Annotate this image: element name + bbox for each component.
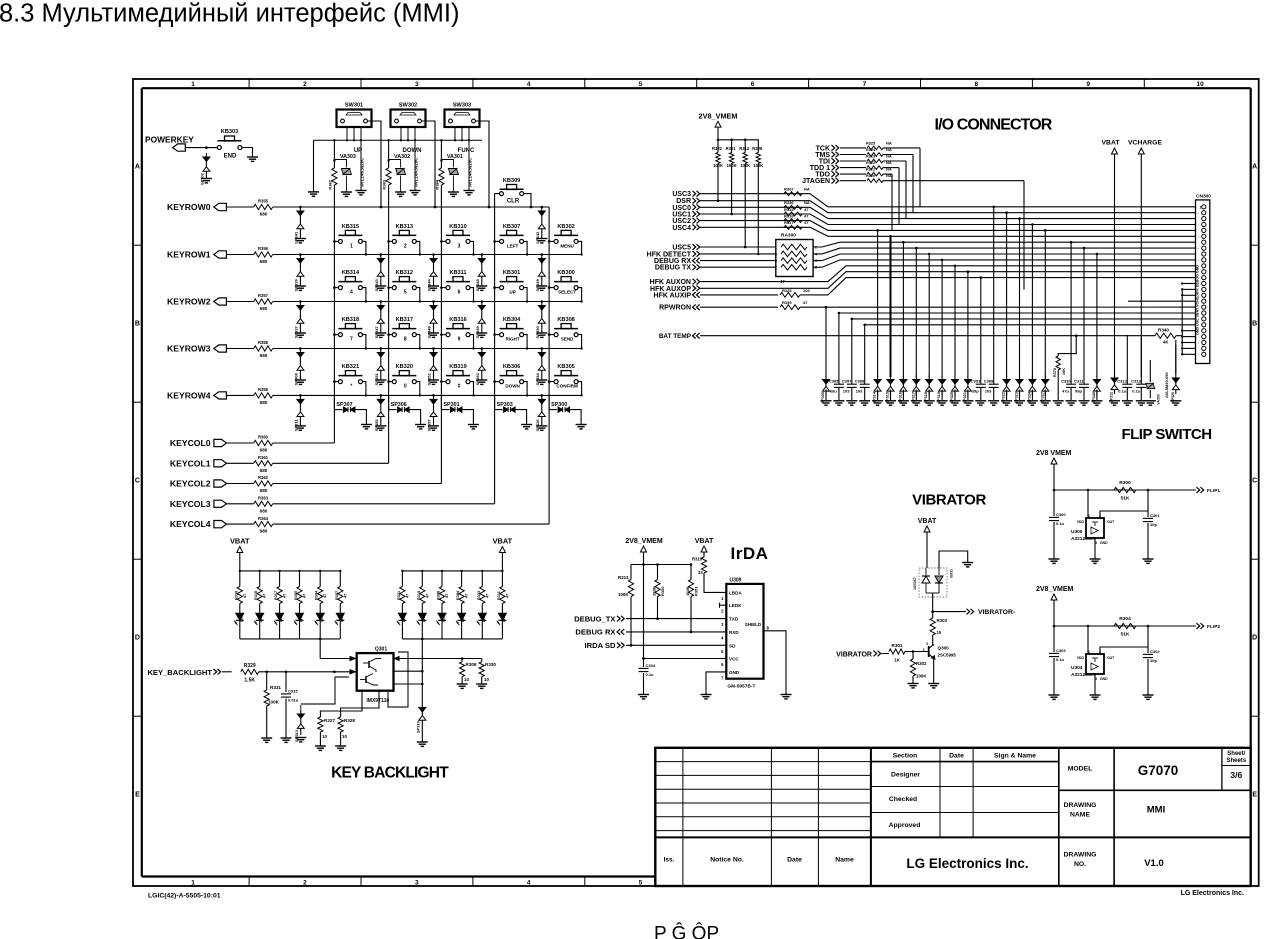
svg-text:NA: NA bbox=[886, 147, 892, 152]
svg-text:C303: C303 bbox=[1056, 648, 1066, 653]
svg-text:680: 680 bbox=[260, 488, 268, 493]
svg-text:SP353: SP353 bbox=[475, 373, 480, 386]
svg-text:SP339: SP339 bbox=[294, 279, 299, 292]
svg-text:SP350: SP350 bbox=[535, 326, 540, 339]
svg-text:R309: R309 bbox=[466, 662, 477, 667]
svg-text:SP347: SP347 bbox=[374, 326, 379, 339]
svg-text:Approved: Approved bbox=[889, 822, 921, 829]
svg-text:R301: R301 bbox=[892, 643, 903, 648]
svg-text:KB321: KB321 bbox=[342, 364, 359, 370]
svg-text:END: END bbox=[224, 154, 237, 160]
svg-text:R331: R331 bbox=[270, 685, 281, 690]
svg-text:3: 3 bbox=[415, 81, 419, 88]
svg-text:SHIELD: SHIELD bbox=[745, 622, 761, 627]
svg-text:DRAWING: DRAWING bbox=[1064, 802, 1097, 809]
svg-text:DOWN: DOWN bbox=[505, 384, 520, 389]
svg-text:GND USC VBAT VCHG HFK DEBUG GN: GND USC VBAT VCHG HFK DEBUG GND bbox=[1196, 265, 1200, 335]
svg-text:51K: 51K bbox=[1121, 496, 1130, 502]
svg-text:R362: R362 bbox=[258, 475, 269, 480]
svg-text:E: E bbox=[1252, 792, 1257, 799]
svg-text:99p: 99p bbox=[1075, 389, 1082, 394]
svg-text:NA: NA bbox=[886, 154, 892, 159]
svg-text:KB317: KB317 bbox=[396, 317, 413, 323]
svg-text:103K: 103K bbox=[652, 586, 657, 596]
svg-text:OUT: OUT bbox=[1107, 520, 1115, 524]
svg-text:RA300: RA300 bbox=[781, 233, 796, 239]
svg-text:10: 10 bbox=[464, 677, 469, 682]
svg-text:RPWRON: RPWRON bbox=[659, 305, 691, 312]
svg-text:47: 47 bbox=[263, 594, 267, 598]
svg-text:CN300: CN300 bbox=[1196, 194, 1211, 200]
svg-text:KEYROW4: KEYROW4 bbox=[167, 390, 211, 400]
svg-text:SP315: SP315 bbox=[886, 392, 890, 403]
svg-text:47: 47 bbox=[283, 594, 287, 598]
svg-text:E: E bbox=[135, 792, 140, 799]
svg-text:47: 47 bbox=[803, 300, 808, 305]
svg-text:R303: R303 bbox=[937, 618, 948, 623]
svg-text:SD: SD bbox=[729, 643, 736, 648]
svg-text:•: • bbox=[1198, 259, 1199, 262]
svg-text:2SC5995: 2SC5995 bbox=[938, 653, 957, 658]
svg-text:USC4: USC4 bbox=[672, 225, 691, 232]
svg-text:KB314: KB314 bbox=[342, 270, 360, 276]
svg-text:5: 5 bbox=[639, 879, 643, 886]
svg-text:JTAGEN: JTAGEN bbox=[802, 178, 830, 185]
svg-text:51K: 51K bbox=[1121, 632, 1130, 638]
svg-text:VIBRATOR: VIBRATOR bbox=[836, 652, 872, 659]
svg-text:KB300: KB300 bbox=[557, 270, 574, 276]
svg-text:D: D bbox=[1252, 635, 1257, 642]
svg-text:VBAT: VBAT bbox=[230, 537, 250, 546]
svg-text:AVL14K3920C: AVL14K3920C bbox=[360, 157, 365, 187]
svg-text:R312: R312 bbox=[739, 146, 750, 151]
svg-text:R318: R318 bbox=[254, 591, 258, 600]
svg-text:R361: R361 bbox=[258, 455, 269, 460]
svg-text:LG Electronics Inc.: LG Electronics Inc. bbox=[906, 856, 1028, 871]
svg-text:39p: 39p bbox=[972, 389, 979, 394]
svg-text:10p: 10p bbox=[1150, 522, 1157, 527]
svg-text:0: 0 bbox=[404, 384, 407, 390]
svg-text:5: 5 bbox=[639, 81, 643, 88]
svg-text:C: C bbox=[135, 478, 140, 485]
svg-text:47: 47 bbox=[445, 594, 449, 598]
svg-text:680: 680 bbox=[260, 448, 268, 453]
svg-text:47: 47 bbox=[343, 594, 347, 598]
svg-text:C315: C315 bbox=[288, 689, 298, 694]
svg-text:0.1u: 0.1u bbox=[646, 672, 655, 677]
svg-text:GM-5957B-T: GM-5957B-T bbox=[727, 684, 755, 690]
svg-text:R333: R333 bbox=[477, 591, 481, 600]
svg-text:#: # bbox=[458, 384, 461, 390]
svg-text:SP320: SP320 bbox=[950, 392, 954, 403]
svg-text:R315: R315 bbox=[784, 207, 794, 212]
svg-text:2V8 VMEM: 2V8 VMEM bbox=[1036, 450, 1072, 457]
svg-text:47: 47 bbox=[243, 594, 247, 598]
svg-text:R321: R321 bbox=[397, 591, 401, 600]
svg-text:IMX9T110: IMX9T110 bbox=[366, 698, 389, 704]
svg-text:680: 680 bbox=[260, 259, 268, 264]
svg-text:SP340: SP340 bbox=[1092, 392, 1096, 403]
svg-text:7: 7 bbox=[863, 81, 867, 88]
svg-text:4: 4 bbox=[527, 81, 531, 88]
svg-text:10: 10 bbox=[484, 677, 489, 682]
svg-text:10p: 10p bbox=[1150, 658, 1157, 663]
svg-text:KB307: KB307 bbox=[503, 224, 520, 230]
svg-text:SP357: SP357 bbox=[427, 419, 432, 432]
svg-text:NA: NA bbox=[804, 187, 810, 192]
svg-text:KB316: KB316 bbox=[449, 317, 466, 323]
svg-text:SP314: SP314 bbox=[873, 391, 877, 403]
svg-text:R300: R300 bbox=[1119, 480, 1131, 486]
svg-text:VIBRATOR-: VIBRATOR- bbox=[978, 609, 1015, 616]
svg-text:DRAWING: DRAWING bbox=[1064, 852, 1097, 859]
svg-text:10: 10 bbox=[1196, 81, 1204, 88]
svg-text:CONFIRM: CONFIRM bbox=[556, 384, 578, 389]
svg-text:SW301: SW301 bbox=[345, 103, 363, 109]
svg-text:R321: R321 bbox=[726, 146, 737, 151]
svg-text:SP351: SP351 bbox=[374, 373, 379, 386]
svg-text:6: 6 bbox=[458, 290, 461, 296]
svg-text:Iss.: Iss. bbox=[664, 857, 675, 864]
svg-text:SP342: SP342 bbox=[535, 231, 540, 244]
svg-text:R317: R317 bbox=[274, 591, 278, 600]
svg-text:R384: R384 bbox=[456, 590, 460, 600]
svg-text:R323: R323 bbox=[866, 155, 875, 159]
svg-text:VBAT: VBAT bbox=[493, 537, 513, 546]
svg-text:R329: R329 bbox=[244, 663, 256, 669]
svg-text:R322: R322 bbox=[712, 146, 723, 151]
svg-text:R340: R340 bbox=[1158, 328, 1169, 333]
svg-text:SP348: SP348 bbox=[427, 326, 432, 339]
svg-text:C397: C397 bbox=[842, 379, 852, 384]
svg-text:47u: 47u bbox=[1062, 389, 1069, 394]
svg-text:2: 2 bbox=[303, 81, 307, 88]
svg-text:R311: R311 bbox=[497, 591, 501, 600]
svg-text:R310: R310 bbox=[692, 557, 703, 562]
svg-text:LEDK: LEDK bbox=[729, 603, 742, 608]
svg-text:C393: C393 bbox=[971, 379, 981, 384]
svg-text:Notice No.: Notice No. bbox=[710, 857, 744, 864]
svg-text:R330: R330 bbox=[485, 662, 496, 667]
svg-text:VA302: VA302 bbox=[394, 154, 410, 160]
svg-text:47: 47 bbox=[804, 220, 809, 225]
svg-text:C300: C300 bbox=[1056, 512, 1066, 517]
svg-text:R327: R327 bbox=[324, 718, 335, 723]
svg-text:Date: Date bbox=[949, 753, 964, 760]
svg-text:2: 2 bbox=[404, 243, 407, 249]
svg-text:G7070: G7070 bbox=[1138, 763, 1179, 778]
svg-text:R306: R306 bbox=[752, 146, 763, 151]
svg-text:2V8_VMEM: 2V8_VMEM bbox=[699, 112, 738, 121]
svg-text:C395: C395 bbox=[829, 379, 839, 384]
svg-text:9: 9 bbox=[458, 337, 461, 343]
svg-text:VA300: VA300 bbox=[1156, 394, 1160, 405]
svg-text:SP354: SP354 bbox=[535, 373, 540, 386]
svg-text:KB306: KB306 bbox=[503, 364, 520, 370]
svg-text:SP324: SP324 bbox=[1027, 391, 1031, 403]
svg-text:4K: 4K bbox=[1163, 340, 1168, 345]
svg-text:MODEL: MODEL bbox=[1068, 766, 1093, 773]
svg-text:SP327: SP327 bbox=[1040, 392, 1044, 403]
svg-text:CLR: CLR bbox=[507, 199, 520, 205]
svg-text:VBAT: VBAT bbox=[695, 538, 714, 545]
svg-text:R357: R357 bbox=[258, 293, 269, 298]
svg-text:0.1u: 0.1u bbox=[1118, 389, 1127, 394]
svg-text:Date: Date bbox=[787, 857, 802, 864]
svg-text:U304: U304 bbox=[1071, 665, 1083, 671]
svg-text:15: 15 bbox=[937, 630, 942, 635]
svg-text:47: 47 bbox=[323, 594, 327, 598]
svg-text:KEYCOL0: KEYCOL0 bbox=[170, 438, 211, 448]
svg-text:A3212ELH: A3212ELH bbox=[1071, 536, 1095, 542]
svg-text:1: 1 bbox=[350, 243, 353, 249]
svg-text:C310: C310 bbox=[1061, 379, 1071, 384]
svg-text:U309: U309 bbox=[730, 578, 742, 584]
svg-text:VCC: VCC bbox=[729, 657, 739, 662]
svg-text:SP323: SP323 bbox=[1015, 392, 1019, 403]
svg-text:SP341: SP341 bbox=[294, 231, 299, 244]
svg-text:FUNC: FUNC bbox=[458, 148, 475, 154]
svg-text:R322: R322 bbox=[866, 161, 875, 165]
svg-text:SP310: SP310 bbox=[416, 720, 421, 733]
svg-text:680: 680 bbox=[260, 529, 268, 534]
svg-text:8: 8 bbox=[404, 337, 407, 343]
svg-text:KB310: KB310 bbox=[449, 224, 466, 230]
svg-text:R336: R336 bbox=[784, 200, 794, 205]
svg-text:KB311: KB311 bbox=[449, 270, 466, 276]
svg-text:R363: R363 bbox=[258, 496, 269, 501]
svg-text:KB318: KB318 bbox=[342, 317, 359, 323]
svg-text:KB309: KB309 bbox=[503, 178, 520, 184]
svg-text:D: D bbox=[135, 635, 140, 642]
svg-text:8.3 Мультимедийный интерфейс (: 8.3 Мультимедийный интерфейс (MMI) bbox=[0, 0, 459, 28]
svg-text:47: 47 bbox=[485, 594, 489, 598]
svg-text:680: 680 bbox=[260, 468, 268, 473]
svg-text:100: 100 bbox=[803, 288, 810, 293]
svg-text:TXD: TXD bbox=[729, 617, 739, 622]
svg-text:SP345: SP345 bbox=[475, 279, 480, 292]
svg-text:R321: R321 bbox=[866, 168, 875, 172]
svg-text:47: 47 bbox=[405, 594, 409, 598]
svg-text:SP343: SP343 bbox=[374, 279, 379, 292]
svg-text:VBAT: VBAT bbox=[1102, 140, 1121, 147]
svg-text:HFK AUXIP: HFK AUXIP bbox=[654, 292, 692, 299]
svg-text:47: 47 bbox=[505, 594, 509, 598]
svg-text:103K: 103K bbox=[685, 586, 690, 596]
svg-text:AVL14K3920C: AVL14K3920C bbox=[468, 157, 473, 187]
svg-text:103: 103 bbox=[843, 389, 850, 394]
svg-text:SP311: SP311 bbox=[294, 419, 299, 432]
svg-text:1K: 1K bbox=[894, 658, 900, 663]
svg-text:R319: R319 bbox=[417, 591, 421, 600]
svg-text:I/O CONNECTOR: I/O CONNECTOR bbox=[935, 117, 1053, 134]
svg-text:AVL5M20-050: AVL5M20-050 bbox=[1164, 372, 1169, 398]
svg-text:•: • bbox=[1198, 342, 1199, 345]
svg-text:R307: R307 bbox=[335, 591, 339, 600]
svg-text:4: 4 bbox=[527, 879, 531, 886]
svg-text:VA303: VA303 bbox=[340, 154, 356, 160]
svg-text:Checked: Checked bbox=[889, 796, 917, 803]
svg-text:7: 7 bbox=[350, 337, 353, 343]
svg-text:NAME: NAME bbox=[1070, 812, 1090, 819]
svg-text:*: * bbox=[350, 384, 352, 390]
svg-text:SP317: SP317 bbox=[911, 392, 915, 403]
svg-text:KEYROW3: KEYROW3 bbox=[167, 344, 211, 354]
svg-text:3/6: 3/6 bbox=[1230, 770, 1242, 780]
svg-text:KEYROW2: KEYROW2 bbox=[167, 297, 211, 307]
svg-text:2V8_VMEM: 2V8_VMEM bbox=[1036, 586, 1074, 593]
svg-text:R320: R320 bbox=[866, 174, 875, 178]
svg-text:SP344: SP344 bbox=[427, 279, 432, 292]
svg-text:KB301: KB301 bbox=[503, 270, 520, 276]
svg-text:NA: NA bbox=[804, 200, 810, 205]
svg-text:3: 3 bbox=[415, 879, 419, 886]
svg-text:Sheet/: Sheet/ bbox=[1227, 751, 1245, 757]
svg-text:SP318: SP318 bbox=[924, 392, 928, 403]
svg-text:NO.: NO. bbox=[1074, 861, 1086, 868]
svg-text:SP326: SP326 bbox=[535, 419, 540, 432]
svg-text:R317: R317 bbox=[784, 220, 794, 225]
svg-text:A: A bbox=[135, 164, 140, 171]
svg-text:IRDA SD: IRDA SD bbox=[585, 641, 616, 650]
svg-text:FLIP2: FLIP2 bbox=[1207, 624, 1220, 630]
svg-text:SP316: SP316 bbox=[898, 392, 902, 403]
svg-text:0.01u: 0.01u bbox=[288, 698, 299, 703]
svg-text:3: 3 bbox=[458, 243, 461, 249]
svg-text:SP308: SP308 bbox=[294, 373, 299, 386]
svg-text:VIBRATOR: VIBRATOR bbox=[912, 492, 986, 509]
svg-text:DEBUG RX: DEBUG RX bbox=[575, 628, 615, 637]
svg-text:SELECT: SELECT bbox=[558, 290, 576, 295]
svg-text:R328: R328 bbox=[344, 718, 355, 723]
svg-text:R358: R358 bbox=[258, 340, 269, 345]
svg-text:IrDA: IrDA bbox=[731, 544, 769, 563]
svg-text:680: 680 bbox=[260, 508, 268, 513]
svg-text:2: 2 bbox=[303, 879, 307, 886]
svg-text:KB304: KB304 bbox=[503, 317, 521, 323]
svg-text:1: 1 bbox=[191, 879, 195, 886]
svg-text:AVL14K3920C: AVL14K3920C bbox=[414, 157, 419, 187]
svg-text:NA: NA bbox=[886, 173, 892, 178]
svg-text:Q300: Q300 bbox=[938, 646, 950, 651]
svg-text:R355: R355 bbox=[258, 199, 269, 204]
svg-text:C301: C301 bbox=[1150, 513, 1160, 518]
svg-text:NA: NA bbox=[886, 141, 892, 146]
svg-text:Sheets: Sheets bbox=[1226, 758, 1246, 764]
svg-text:UP: UP bbox=[354, 148, 362, 154]
svg-text:SP319: SP319 bbox=[937, 392, 941, 403]
svg-text:R304: R304 bbox=[1119, 616, 1131, 622]
svg-text:•: • bbox=[1198, 354, 1199, 357]
svg-text:KEYROW0: KEYROW0 bbox=[167, 202, 211, 212]
svg-text:R304: R304 bbox=[315, 590, 319, 600]
svg-text:R305: R305 bbox=[294, 591, 298, 600]
svg-text:R364: R364 bbox=[258, 516, 269, 521]
svg-text:3: 3 bbox=[775, 252, 777, 256]
svg-text:100K: 100K bbox=[618, 592, 629, 597]
svg-text:C311: C311 bbox=[1074, 379, 1084, 384]
svg-text:R360: R360 bbox=[258, 435, 269, 440]
svg-text:1SS367: 1SS367 bbox=[913, 577, 917, 590]
svg-text:MENU: MENU bbox=[560, 243, 574, 248]
svg-text:100K: 100K bbox=[268, 700, 280, 705]
svg-text:RXD: RXD bbox=[729, 630, 739, 635]
svg-text:GND: GND bbox=[729, 670, 740, 675]
svg-text:VCHARGE: VCHARGE bbox=[1128, 140, 1162, 147]
svg-text:C: C bbox=[1252, 478, 1257, 485]
svg-text:5: 5 bbox=[404, 290, 407, 296]
svg-text:SP322: SP322 bbox=[1002, 392, 1006, 403]
svg-text:KB320: KB320 bbox=[396, 364, 413, 370]
svg-text:R370: R370 bbox=[1053, 368, 1057, 377]
svg-text:2V8_VMEM: 2V8_VMEM bbox=[625, 538, 663, 545]
svg-text:VA301: VA301 bbox=[447, 154, 463, 160]
svg-text:103: 103 bbox=[985, 389, 992, 394]
svg-text:KB302: KB302 bbox=[557, 224, 574, 230]
svg-text:9: 9 bbox=[1086, 81, 1090, 88]
svg-text:KEYCOL3: KEYCOL3 bbox=[170, 499, 211, 509]
svg-text:R339: R339 bbox=[782, 300, 792, 305]
svg-text:SP352: SP352 bbox=[427, 373, 432, 386]
svg-text:A: A bbox=[1252, 164, 1257, 171]
svg-text:R324: R324 bbox=[866, 148, 876, 152]
svg-text:KB319: KB319 bbox=[449, 364, 466, 370]
svg-text:KEY BACKLIGHT: KEY BACKLIGHT bbox=[331, 765, 449, 782]
svg-text:BAT TEMP: BAT TEMP bbox=[659, 333, 692, 340]
svg-text:SP349: SP349 bbox=[535, 279, 540, 292]
svg-text:Section: Section bbox=[893, 753, 918, 760]
svg-text:SP355: SP355 bbox=[374, 419, 379, 432]
svg-text:R316: R316 bbox=[784, 213, 794, 218]
svg-text:Sign & Name: Sign & Name bbox=[994, 753, 1036, 760]
svg-text:RIGHT: RIGHT bbox=[505, 337, 519, 342]
svg-text:B: B bbox=[135, 321, 140, 328]
svg-text:4: 4 bbox=[350, 290, 353, 296]
svg-text:0.1u: 0.1u bbox=[1056, 657, 1065, 662]
svg-text:103: 103 bbox=[856, 389, 863, 394]
svg-text:FLIP1: FLIP1 bbox=[1207, 488, 1220, 494]
svg-text:LEFT: LEFT bbox=[507, 243, 519, 248]
svg-text:8: 8 bbox=[974, 81, 978, 88]
svg-text:10: 10 bbox=[342, 734, 347, 739]
svg-text:R350: R350 bbox=[660, 586, 665, 596]
svg-text:SW302: SW302 bbox=[399, 103, 417, 109]
svg-text:1: 1 bbox=[191, 81, 195, 88]
svg-text:47: 47 bbox=[465, 594, 469, 598]
svg-text:UP: UP bbox=[509, 290, 515, 295]
svg-text:GND: GND bbox=[1100, 541, 1108, 545]
svg-text:KB305: KB305 bbox=[557, 364, 574, 370]
svg-text:0.1u: 0.1u bbox=[1056, 521, 1065, 526]
svg-text:680: 680 bbox=[260, 306, 268, 311]
svg-text:VDD: VDD bbox=[1077, 656, 1085, 660]
svg-text:47: 47 bbox=[303, 594, 307, 598]
svg-text:R307: R307 bbox=[784, 187, 794, 192]
svg-text:DEBUG TX: DEBUG TX bbox=[655, 265, 692, 272]
svg-text:10: 10 bbox=[322, 734, 327, 739]
svg-text:6: 6 bbox=[751, 81, 755, 88]
svg-text:Designer: Designer bbox=[891, 772, 920, 779]
svg-text:47: 47 bbox=[804, 213, 809, 218]
svg-text:10K: 10K bbox=[1062, 368, 1066, 375]
svg-text:R325: R325 bbox=[866, 142, 875, 146]
svg-text:SP337: SP337 bbox=[294, 326, 299, 339]
svg-text:Name: Name bbox=[835, 857, 854, 864]
svg-text:D300: D300 bbox=[949, 569, 953, 578]
svg-text:1: 1 bbox=[1088, 514, 1090, 518]
svg-text:KEYCOL2: KEYCOL2 bbox=[170, 479, 211, 489]
svg-text:KB308: KB308 bbox=[557, 317, 574, 323]
